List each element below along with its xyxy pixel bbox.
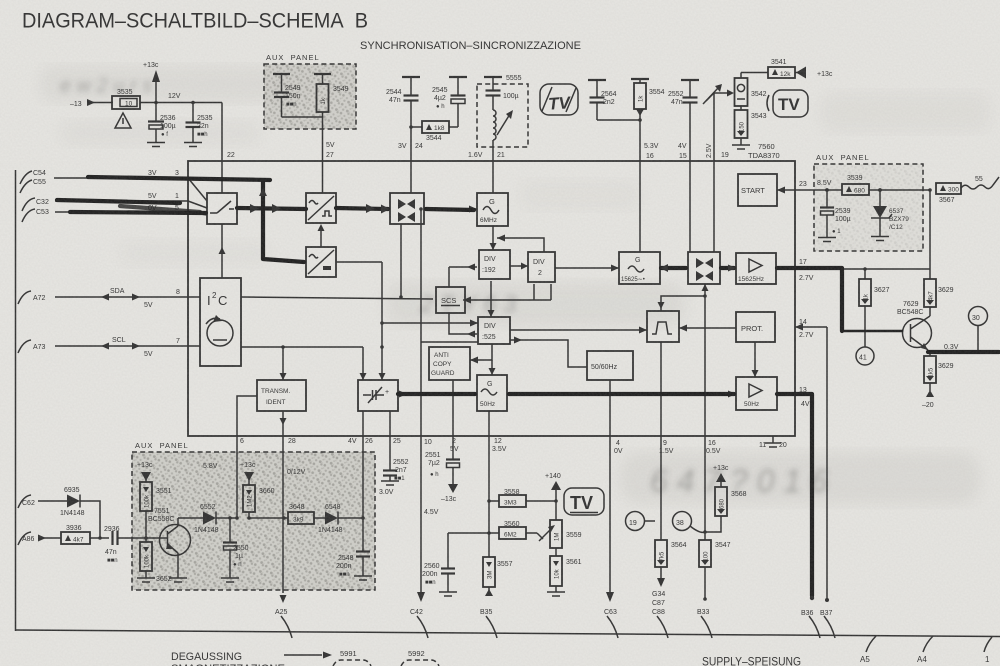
ground [221,578,239,582]
resistor R3560 6M2 [448,521,537,539]
degaussing arrow [284,652,332,659]
coil L5555 adjustable [493,110,513,161]
pin 9 label [659,440,674,455]
resistor R3660 1M2 [243,485,275,520]
resistor R3547 100 [697,540,731,616]
rail hook C63 [607,616,618,638]
amplifier block 50Hz [736,377,777,410]
capacitor C2936 47n [104,526,146,564]
wire G50 to amp50 [507,391,736,398]
capacitor C2548 200n [336,518,370,578]
wire clamp to pin 25 [390,411,401,445]
wire clamp to G50 thick path [398,391,477,398]
ground [354,576,372,580]
connector labels B36 B37 [801,610,833,617]
wire 5060 to pin 4 [609,380,611,436]
marker stroke amp1 out 2.7V path [777,268,902,331]
pins 11 20 ground [759,436,787,449]
marker stroke sync path row1 [237,204,474,214]
node -13 input [70,99,95,108]
capacitor C2560 200n [422,533,455,592]
anti copy guard block [429,347,470,380]
coil 5991 [333,649,371,666]
wire DIV525 to 5060 [510,337,587,368]
wire START to pin 23 [777,181,814,194]
TV badge bottom [564,488,604,515]
ground [818,238,836,242]
pin 10 label [424,439,432,446]
rail hook G34 [657,616,668,638]
sawtooth shaper block 2 [306,247,336,277]
transistor Q7551 BC558C [146,508,191,578]
wire 2.7V rail to resistors [842,267,930,271]
wire G6MHz to DIV192 [490,226,497,250]
wire pin22 to switch [221,161,223,193]
capacitor C2545 4u2 [432,77,467,127]
5.8V label [203,463,218,470]
resistor R3543 [735,106,767,145]
resistor R3541 12k [741,59,806,78]
bottom rail wire [15,630,1000,637]
resistor R3557 [480,436,513,616]
wire zener junction down to resistor rail [928,188,932,269]
wire I2C to SCS row [241,297,433,299]
wire SCL pin 7 [55,337,200,358]
wire DIV525 to G50 [489,360,496,375]
pin 15 label [678,143,687,160]
resistor R3549 [314,74,349,112]
transm ident block [257,380,306,411]
ground [547,592,565,596]
wire clamp to pin 26 [348,411,373,445]
wire pin4 to C63 [604,436,617,616]
wire TRANSM left to pin 6 [237,396,257,445]
capacitor C2552 47n [668,80,699,161]
coincidence detector block 1 [390,193,424,224]
wire pin27 to sawtooth1 [322,161,324,193]
SUPPLY-SPEISUNG label [702,657,801,666]
diode D6552 1N4148 [178,504,237,534]
coil 5992 [401,649,439,666]
title [22,10,368,33]
ground [439,592,457,596]
sawtooth shaper block 1 [306,193,336,223]
wire -13 to R3535 [93,102,113,104]
resistor R3652 100k [140,536,172,583]
wire 0V line pin 5 [55,205,207,215]
pin 14 labels and wire [795,319,829,602]
resistor R3539 680 [842,175,930,195]
ground [379,481,399,496]
START block [738,174,777,206]
supply +13c arrow right [240,462,256,485]
transistor Q7629 BC548C [897,301,932,350]
I2C interface block [200,278,241,366]
rail hook C42 [417,616,428,638]
probe arrow node pin 19 [703,84,734,161]
resistor R3648 3k9 [288,504,325,524]
wire DIV192 to DIV2 [510,263,528,270]
resistor R3544 1k8 [409,121,458,142]
wire pin 16 bottom vertical [704,296,706,436]
AUX PANEL bottom dashed box [132,441,375,590]
capacitor C2535 22n [186,101,213,142]
capacitor C2551 mu2 pin2 [425,436,460,484]
wire switch to I2C [219,224,226,278]
wire SDA pin 8 [55,288,200,309]
pin 24 label [398,143,423,150]
resistor R3554 [631,79,665,161]
wire diode row to 3648 [249,516,288,520]
node A73 [18,340,46,353]
AUX PANEL top dashed box [264,53,356,129]
oscillator block G 6MHz [477,193,508,226]
resistor R3561 [550,548,582,592]
wire pin10 to C42 [410,436,439,616]
wire TRANSM bottom to pin 28 [280,411,296,445]
pin 27 label [326,142,335,159]
wire I2C ident row [241,345,384,380]
wire bus to DIV525 [421,341,478,343]
switch block (sync selector) [207,193,237,224]
node +13c arrow [143,62,160,104]
wire pulse to coincidence2 [658,284,709,311]
wire pin16 to G15625 [639,161,641,252]
marker stroke 3V path [88,177,270,180]
rail hook B35 [486,616,497,638]
ground [169,578,187,582]
node C54 C55 [20,170,46,193]
wire DIV525 to pulse block [510,327,647,334]
capacitor C2536 100u [148,103,176,143]
wire squiggle to connector 55 [961,176,999,189]
IC U7560 TDA8370 main box [188,161,795,436]
supply -20 arrow [922,383,934,409]
wire bus to ACG [470,344,492,364]
left bus vertical wire [15,170,17,631]
marker stroke 15625 path [660,264,736,272]
ghost print-through marks (decorative-free zone label skipped) [40,66,990,504]
ground [871,237,889,241]
wire 12V rail [140,93,222,161]
wire sawtooth2 to sawtooth1 arrow [318,224,325,247]
wire pin9 down [660,436,662,540]
video clamp block [358,380,398,411]
supply +13c arrow left [137,462,153,482]
rail hook B37 [824,616,835,638]
pulse shaper block [647,311,679,342]
capacitor in 5555 100u [484,77,519,110]
wire PROT to pulse [679,325,736,332]
diode D6548 1N4148 [318,504,363,534]
node C62 with diode D6935 [18,487,102,540]
ground [732,145,750,149]
wire pin26 down to diode row [361,436,365,520]
capacitor C2549 150n [273,74,301,117]
DEGAUSSING label [171,651,285,666]
wire 5V line pin 1 [55,193,207,208]
wire feedback row [497,235,544,253]
node A72 [18,291,46,304]
capacitor C2550 1u [223,516,249,578]
resistor R3564 [655,540,687,587]
ground [184,143,202,147]
node C32 [22,198,49,211]
pin 13 labels [799,387,810,408]
zener D6537 BZX79/C12 [871,188,909,236]
SCS block [436,287,465,313]
wire G50 to pin 12 [489,411,507,453]
oscillator block G 15625Hz [619,252,660,284]
resistor R3542 NTC [735,73,767,107]
protection block PROT [736,312,775,342]
subtitle SYNCHRONISATION [360,40,581,52]
capacitor C2539 100u [820,190,851,237]
divider block DIV:2 [528,252,555,282]
wire pin15 to coincidence2 [689,161,691,252]
marker stroke amp2 out to B36 [777,394,814,600]
wire pulse to pin 9 [660,342,662,436]
rail hook A5 [860,636,876,664]
capacitor C2544 47n [386,77,420,161]
rail hook A4 [917,636,933,664]
ground [137,578,155,582]
resistor R3629 upper [924,269,954,307]
supply +13c arrow for R3568 [713,465,729,487]
warning triangle [115,113,131,128]
wire pin24 to coincidence1 [410,161,412,193]
potentiometer R3559 1M [537,520,582,548]
label 7560 TDA8370 [748,142,780,160]
wire pin28 down 0/12V to A25 [275,436,306,616]
pin 17 labels [799,259,814,282]
connector 1 far right [984,637,992,664]
wire ACG to pin 2 [450,380,459,453]
marker stroke emitter 0.3V rail [928,350,999,354]
node +13c arrow [796,67,833,79]
divider block DIV:525 [478,317,510,344]
bus vertical inside IC [419,207,423,436]
TV badge hatched [540,84,578,115]
50/60Hz ident block [587,351,633,380]
divider block DIV:192 [479,250,510,279]
wire pin21 to G6MHz [492,161,494,193]
0.3V label [944,344,959,351]
resistor R3568 [705,487,747,532]
wire PROT to amp50 [752,342,759,377]
pin 19 label [706,143,729,159]
supply +140 arrow [545,473,561,520]
TV badge bold [767,90,808,117]
coil 5555 dashed box [477,75,528,147]
pin 4 label [614,440,623,455]
test point 41 [856,306,874,365]
pin 21 label [468,152,505,159]
wire pin6 down to diode row [235,436,239,520]
wire coincidence1 bottom to I2C row [399,224,403,299]
resistor R3535 value 10 [112,89,140,109]
wire DIV2 to G15625 [555,265,619,272]
resistor R3629 lower [924,352,954,383]
coincidence detector block 2 [688,252,720,284]
resistor R3558 3M3 [489,489,558,507]
marker stroke 5V/0V path [57,200,206,213]
oscillator block G 50Hz [477,375,507,411]
connector labels G34 C87 C88 [652,591,665,616]
wire pin19 to coincidence2 [713,161,715,252]
rail hook A25 [281,616,292,638]
wire sawtooth2 to burst vertical [336,262,386,380]
pin 16 label [644,143,659,160]
marker stroke switch to sawtooth2 [259,181,304,262]
pin 16b label [706,440,721,455]
rail hook B36 [809,616,820,638]
wire aux panel out to pin 27 [282,112,323,161]
wire burst row to DIV525 [380,320,478,327]
test point 19 circled [626,512,656,531]
wire pin23 into aux panel 8.5V [814,180,842,192]
wire pin16 down [703,436,707,540]
wire coincidence1 to G6MHz [424,206,477,213]
node C53 [22,209,49,222]
amplifier block 15625Hz [736,253,776,284]
test point 30 [969,307,988,352]
marker stroke G50 row [398,392,734,396]
wire SCS to dividers vertical [449,264,551,338]
AUX PANEL right dashed box [814,153,923,251]
capacitor C2552b 2n7 pin25 [383,436,409,482]
node A86 with resistor R3936 4k7 [18,525,109,545]
capacitor C2564 2n2 [588,80,640,120]
resistor R3567 300 [936,183,961,204]
test point 38 circled [673,512,706,533]
wire 3V line pin 3 [54,170,207,201]
pin 22 label [227,152,235,159]
ground [147,143,165,147]
rail hook B33 [701,616,712,638]
supply -13c arrow [441,484,458,503]
resistor R3551 100k [140,482,172,542]
resistor R3627 [859,269,890,306]
